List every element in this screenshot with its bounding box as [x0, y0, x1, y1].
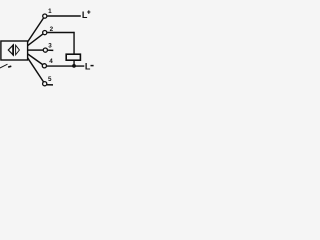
load resistor [66, 54, 80, 60]
wire stub to pin 3 [28, 49, 43, 51]
direction mark line [0, 64, 8, 68]
wire stub pin 5 [47, 84, 53, 86]
terminal circle pin 5 [43, 82, 47, 86]
wire pin2 horizontal [47, 32, 74, 34]
wire load to L- rail [73, 61, 75, 66]
wire stub pin 3 [48, 49, 54, 51]
wire stub to pin 2 [28, 34, 43, 46]
terminal circle pin 1 [43, 14, 47, 18]
svg-text:3: 3 [48, 42, 52, 49]
svg-text:L: L [85, 61, 91, 71]
svg-text:5: 5 [48, 76, 52, 83]
wire pin4 to L- [47, 65, 84, 67]
sensor symbol left triangle [8, 45, 13, 55]
wire stub to pin 4 [28, 54, 43, 65]
sensor symbol center bar [12, 45, 14, 56]
svg-text:L: L [82, 10, 88, 20]
terminal circle pin 3 [43, 48, 47, 52]
wire pin2 vertical to load [73, 32, 75, 54]
wire stub to pin 5 [28, 58, 44, 82]
svg-text:4: 4 [49, 58, 53, 65]
wire stub to pin 1 [28, 18, 44, 42]
wire pin1 to L+ [48, 15, 81, 17]
sensor symbol right triangle [16, 45, 20, 55]
sensor box U1 [1, 41, 28, 60]
terminal circle pin 2 [43, 30, 47, 34]
svg-text:1: 1 [48, 8, 52, 15]
direction mark dash [8, 65, 11, 68]
junction dot [72, 64, 76, 68]
terminal circle pin 4 [42, 64, 46, 68]
